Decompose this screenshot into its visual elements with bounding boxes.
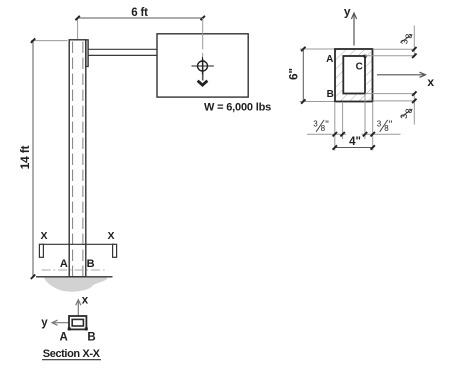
bottom-right tick 2 bbox=[371, 132, 375, 136]
weight box bbox=[157, 34, 248, 97]
tube outer rect with hatch bbox=[335, 49, 373, 102]
bottom-left 3/8 dim line bbox=[307, 133, 346, 135]
svg-text:6 ft: 6 ft bbox=[131, 7, 148, 19]
svg-text:3: 3 bbox=[313, 119, 318, 128]
svg-text:y: y bbox=[41, 317, 48, 329]
bottom-left tick 2 bbox=[340, 132, 344, 136]
4 inch left tick bbox=[333, 145, 337, 149]
top-right wall ext line inner bbox=[365, 55, 416, 57]
pole: left hidden (dashed) line bbox=[72, 42, 74, 277]
svg-text:B: B bbox=[327, 89, 334, 100]
bottom ext line inner-left bbox=[342, 103, 344, 139]
ground shading blob bbox=[44, 277, 107, 291]
bottom-right 3/8" label bbox=[377, 119, 393, 133]
dimension 14 ft: extension line at pole top bbox=[31, 40, 68, 42]
dimension 14 ft: top tick bbox=[31, 38, 35, 42]
bottom-right tick 2 bbox=[412, 99, 416, 103]
section cut hook right bbox=[113, 244, 117, 257]
svg-text:8: 8 bbox=[404, 34, 414, 39]
load arrow (down chevron) bbox=[198, 81, 208, 85]
svg-text:B: B bbox=[87, 258, 95, 270]
6 inch bottom tick bbox=[301, 99, 305, 103]
load point circle bbox=[198, 61, 208, 71]
svg-text:Section X-X: Section X-X bbox=[43, 348, 101, 360]
bottom ext line outer-left bbox=[334, 103, 336, 151]
svg-text:X: X bbox=[107, 230, 114, 242]
bottom-left 3/8" label bbox=[313, 119, 329, 133]
bottom-right wall ext line inner bbox=[365, 93, 416, 95]
top-right tick 1 bbox=[412, 47, 416, 51]
top-right 3/8 fraction (rotated) bbox=[400, 34, 414, 45]
bottom-left tick 1 bbox=[333, 132, 337, 136]
top-right wall dim vertical line bbox=[413, 26, 415, 58]
top-right tick 2 bbox=[412, 54, 416, 58]
dimension 14 ft: bottom tick bbox=[31, 275, 35, 279]
pole: outline bbox=[69, 40, 86, 277]
svg-text:A: A bbox=[60, 332, 68, 344]
small section corner dot B bbox=[85, 327, 88, 330]
bottom-right tick 1 bbox=[412, 91, 416, 95]
svg-text:C: C bbox=[356, 62, 363, 73]
tube inner rect bbox=[343, 56, 365, 94]
svg-text:": " bbox=[389, 120, 393, 131]
svg-text:x: x bbox=[427, 75, 434, 89]
svg-text:4": 4" bbox=[349, 136, 361, 148]
bottom-right wall dim vertical line bbox=[413, 93, 415, 125]
6 inch top tick bbox=[301, 47, 305, 51]
svg-text:X: X bbox=[40, 230, 47, 242]
svg-text:": " bbox=[325, 120, 329, 131]
ground line bbox=[36, 276, 113, 278]
corner dot C bbox=[364, 55, 367, 58]
4 inch dimension line bbox=[335, 147, 373, 149]
arm bracket plate on pole bbox=[86, 40, 88, 67]
dimension 14 ft: dimension line bbox=[32, 41, 34, 277]
svg-text:W = 6,000 lbs: W = 6,000 lbs bbox=[204, 101, 271, 113]
section cut line X-X bbox=[42, 243, 115, 245]
small section corner dot A bbox=[68, 327, 71, 330]
bottom-right 3/8 dim line bbox=[362, 133, 401, 135]
svg-text:B: B bbox=[87, 332, 95, 344]
6 inch extension line top bbox=[300, 48, 335, 50]
arm: top line bbox=[88, 48, 157, 50]
small section x axis bbox=[77, 301, 79, 316]
bottom ext line inner-right bbox=[364, 95, 366, 139]
section cut hook left bbox=[39, 244, 43, 257]
bottom-right tick 1 bbox=[363, 132, 367, 136]
base centerline (dash-dot) bbox=[42, 269, 107, 271]
svg-text:3: 3 bbox=[377, 119, 382, 128]
load shaft bbox=[202, 59, 204, 81]
y axis of cross-section bbox=[353, 14, 355, 46]
bottom-right wall ext line outer bbox=[373, 100, 416, 102]
6 inch dimension line bbox=[302, 49, 304, 102]
pole: right hidden (dashed) line bbox=[82, 42, 84, 277]
svg-text:A: A bbox=[326, 54, 333, 65]
svg-text:x: x bbox=[82, 294, 89, 306]
x axis of cross-section bbox=[377, 74, 425, 76]
bottom-right 3/8 fraction (rotated) bbox=[399, 108, 414, 119]
svg-text:A: A bbox=[60, 258, 68, 270]
bottom ext line outer-right bbox=[372, 103, 374, 151]
svg-text:14 ft: 14 ft bbox=[18, 145, 32, 169]
svg-text:y: y bbox=[344, 4, 351, 18]
load centerline through box bbox=[202, 18, 204, 56]
title underline bbox=[42, 359, 101, 361]
4 inch right tick bbox=[371, 145, 375, 149]
small section y axis bbox=[52, 322, 69, 324]
dimension 6 ft: extension line above pole center bbox=[77, 17, 79, 39]
small section inner tube rect bbox=[72, 319, 83, 326]
svg-text:8: 8 bbox=[404, 108, 414, 113]
svg-text:6": 6" bbox=[288, 68, 300, 80]
top-right wall ext line outer bbox=[373, 48, 416, 50]
arm: bottom line bbox=[88, 54, 157, 56]
dimension 6 ft: dimension line bbox=[78, 17, 203, 19]
load point crosshair horizontal bbox=[192, 65, 214, 67]
dimension 6 ft: left tick bbox=[75, 16, 79, 20]
load point crosshair vertical bbox=[202, 57, 204, 75]
6 inch extension line bottom bbox=[300, 101, 335, 103]
dimension 6 ft: right tick bbox=[201, 16, 205, 20]
small section outer tube rect bbox=[69, 316, 86, 329]
